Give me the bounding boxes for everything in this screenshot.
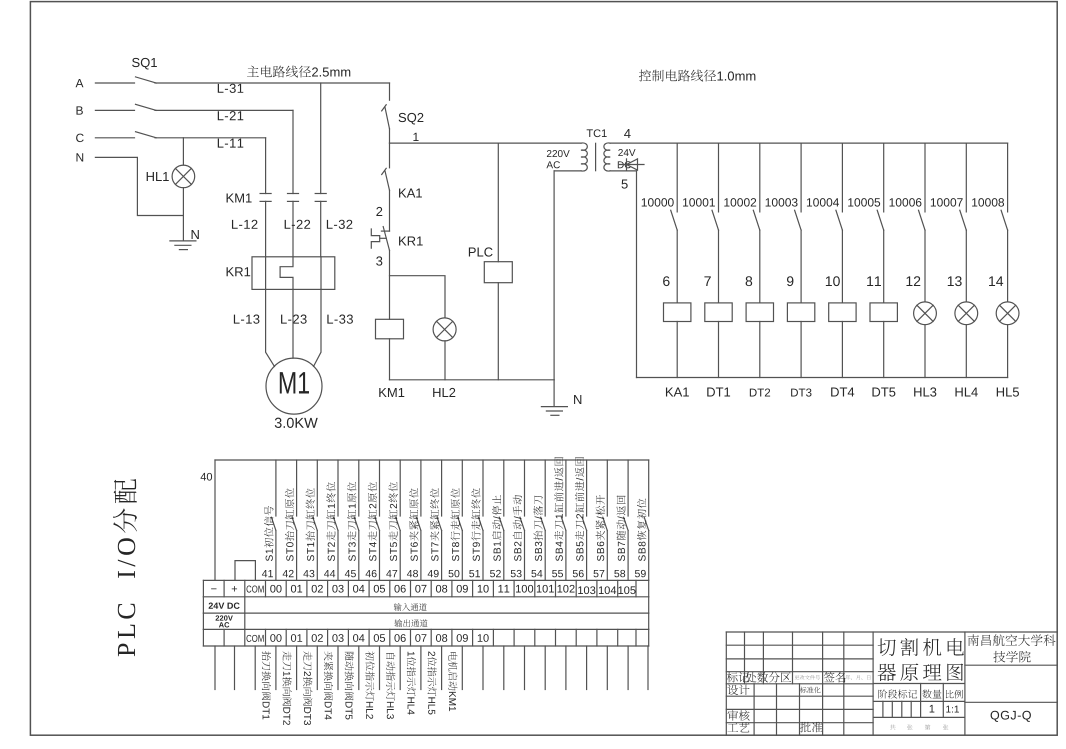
label output address 10003 xyxy=(766,198,798,206)
wire branch DT4 lower xyxy=(841,322,843,378)
label L-13 xyxy=(234,315,260,324)
coil DT3 xyxy=(787,303,814,322)
label output address 10001 xyxy=(683,198,715,206)
wire branch HL5 upper xyxy=(1007,230,1009,302)
contact input 46 xyxy=(375,517,380,530)
contactor KM1 main contact 1 xyxy=(260,193,271,195)
wire input 55 lower xyxy=(565,531,567,581)
wire input 45 upper xyxy=(358,460,360,516)
wire motor lead 1 xyxy=(266,289,275,366)
label PLC xyxy=(469,247,493,256)
wire branch DT1 upper xyxy=(718,230,720,303)
wire KR1 phase2 heater jog xyxy=(280,257,293,290)
label wire number 43 xyxy=(303,570,314,577)
wire drop C to KM1 xyxy=(265,138,267,194)
transformer TC1 core xyxy=(595,143,597,170)
label wire number 57 xyxy=(594,570,605,577)
wire input 58 lower xyxy=(627,531,629,581)
label output channel xyxy=(394,619,427,627)
contact input 52 xyxy=(499,517,504,530)
wire DC left rail xyxy=(636,171,638,378)
wire HL1 drop from C xyxy=(182,138,184,165)
label control circuit wire size xyxy=(639,70,755,82)
wire branch DT4 upper xyxy=(841,230,843,303)
node 1 label xyxy=(413,133,418,141)
label output address 10006 xyxy=(890,198,922,206)
label input ST2走刀缸1终位 xyxy=(326,482,335,561)
wire KR1 phase3 through xyxy=(320,257,322,290)
label KA1 contact xyxy=(399,189,422,198)
label KR1 contact xyxy=(399,237,423,246)
label HL3 xyxy=(914,387,936,396)
wire branch DT5 lower xyxy=(883,322,885,378)
wire input 57 lower xyxy=(606,531,608,581)
ground N mid xyxy=(541,406,567,408)
label wire 40 xyxy=(201,473,213,481)
wire SQ2 to node 1 xyxy=(389,129,391,143)
label wire number 49 xyxy=(428,570,439,577)
label output address 10005 xyxy=(848,198,880,206)
wire input 47 lower xyxy=(399,531,401,581)
contact input 42 xyxy=(292,517,297,530)
label wire number 41 xyxy=(262,570,273,577)
wire A down to SQ2 xyxy=(389,83,391,100)
wire control top rail xyxy=(390,142,582,144)
wire phase A in xyxy=(95,82,134,84)
label input ST4走刀缸2原位 xyxy=(368,482,377,561)
contact input 54 xyxy=(541,517,546,530)
label input ST6夹紧缸原位 xyxy=(409,488,418,561)
terminal table row4 dividers xyxy=(202,629,204,646)
wire output stubs xyxy=(214,646,216,690)
wire input 50 upper xyxy=(461,460,463,516)
drawing title xyxy=(878,638,964,656)
label 220V xyxy=(547,150,570,157)
wire input 41 lower xyxy=(275,531,277,581)
label KM1 main contacts xyxy=(227,194,252,203)
contact PLC output 10007 xyxy=(965,143,967,212)
label wire number 55 xyxy=(552,570,563,577)
label output address 10004 xyxy=(807,198,839,206)
label wire number 42 xyxy=(283,570,294,577)
label input SB6夹紧/松开 xyxy=(596,495,605,561)
label L-12 xyxy=(232,220,258,229)
lamp HL5 xyxy=(996,302,1019,325)
contact input 58 xyxy=(624,517,629,530)
coil KA1 xyxy=(664,303,691,322)
wire input 58 upper xyxy=(627,460,629,516)
label input ST8行走缸原位 xyxy=(451,488,460,561)
label input ST5走刀缸2终位 xyxy=(388,482,397,561)
terminal table row1 labels xyxy=(211,587,216,590)
contact KA1 xyxy=(385,171,390,191)
wire drop A to KM1 xyxy=(320,83,322,194)
label output address 10008 xyxy=(972,198,1004,206)
switch SQ1 blade C xyxy=(136,132,157,138)
label output address 10000 xyxy=(642,198,674,206)
diode D1 xyxy=(620,164,645,166)
terminal table row4 labels xyxy=(246,635,263,642)
wire input 54 upper xyxy=(544,460,546,516)
wire branch KA1 lower xyxy=(676,322,678,378)
terminal table row1 dividers xyxy=(202,580,204,596)
label input ST1抬刀缸终位 xyxy=(306,488,315,561)
contact input 53 xyxy=(520,517,525,530)
label wire number 47 xyxy=(386,570,397,577)
label input ST0抬刀缸原位 xyxy=(285,488,294,561)
contact PLC output 10008 xyxy=(1007,143,1009,212)
wire input 59 lower xyxy=(648,531,650,581)
label SQ1 xyxy=(132,58,157,70)
wire input 43 lower xyxy=(316,531,318,581)
label wire number 51 xyxy=(469,570,480,577)
contact PLC output 10006 xyxy=(924,143,926,212)
contact input 57 xyxy=(603,517,608,530)
label SQ2 xyxy=(399,113,424,125)
label input SB4走刀1缸前进/返回 xyxy=(554,457,563,561)
label input ST7夹紧缸终位 xyxy=(430,488,439,561)
wire input 53 lower xyxy=(524,531,526,581)
wire input 42 lower xyxy=(296,531,298,581)
label input ST9行走缸终位 xyxy=(471,488,480,561)
wire node3 branch to HL2 xyxy=(390,276,446,318)
wire 40 drop xyxy=(214,460,216,580)
wire input 55 upper xyxy=(565,460,567,516)
wire input 46 lower xyxy=(379,531,381,581)
wire jumper plus to COM xyxy=(235,561,255,581)
wire KA1 to KR1 xyxy=(389,190,391,231)
node B phase label xyxy=(76,106,82,114)
label TC1 xyxy=(587,129,607,137)
label wire number 50 xyxy=(449,570,460,577)
wire node1 to KA1 xyxy=(389,143,391,168)
contact PLC output 10003 xyxy=(800,143,802,212)
label DT3 xyxy=(791,388,811,396)
wire branch DT2 lower xyxy=(759,322,761,378)
label input SB1启动/停止 xyxy=(492,495,501,561)
node 9 label xyxy=(787,276,793,286)
wire primary bottom lead xyxy=(554,170,581,172)
wire secondary bottom lead xyxy=(610,170,636,172)
label L-22 xyxy=(285,220,311,229)
label 24V xyxy=(618,149,635,156)
label main circuit wire size xyxy=(247,66,350,78)
lamp HL2 xyxy=(433,318,456,341)
PLC box U1 xyxy=(484,262,512,283)
wire HL1 to ground xyxy=(182,188,184,241)
label wire number 58 xyxy=(614,570,625,577)
label input SB7随动/返回 xyxy=(616,495,625,561)
transformer TC1 secondary winding xyxy=(604,143,610,171)
switch SQ1 blade B xyxy=(136,104,157,110)
node 8 label xyxy=(746,276,753,286)
wire input 48 lower xyxy=(420,531,422,581)
contact KR1 NC thermal xyxy=(381,230,389,232)
wire branch DT5 upper xyxy=(883,230,885,303)
label L-31 xyxy=(218,84,244,93)
lamp HL4 xyxy=(955,302,978,325)
label N mid ground xyxy=(574,395,581,404)
wire control bottom rail xyxy=(390,379,555,381)
wire PLC to rail xyxy=(497,283,499,380)
wire branch HL4 lower xyxy=(965,325,967,378)
contact input 44 xyxy=(334,517,339,530)
thermal relay KR1 box xyxy=(252,257,335,290)
label KA1 xyxy=(666,388,689,397)
node 4 label xyxy=(624,129,631,138)
wire neutral N xyxy=(95,157,183,215)
wire DC bottom rail xyxy=(637,377,1008,379)
wire branch DT2 upper xyxy=(759,230,761,303)
wire phase C run xyxy=(155,137,266,139)
wire input 49 upper xyxy=(441,460,443,516)
label 24V DC xyxy=(209,603,240,609)
node 13 label xyxy=(948,276,962,286)
label DT4 xyxy=(831,388,854,397)
node 2 label xyxy=(376,207,382,216)
node N phase label xyxy=(76,153,83,161)
wire input 41 upper xyxy=(275,460,277,516)
node 14 label xyxy=(989,276,1003,286)
organization name xyxy=(968,634,1056,646)
contact input 55 xyxy=(561,517,566,530)
wire input 51 upper xyxy=(482,460,484,516)
transformer TC1 primary winding xyxy=(581,143,587,171)
wire motor lead 2 xyxy=(292,289,294,358)
contact input 50 xyxy=(458,517,463,530)
motor M1 xyxy=(266,358,322,414)
ground N left xyxy=(170,240,196,242)
label 3.0KW xyxy=(275,418,318,428)
sheet count row xyxy=(890,725,895,730)
contact input 47 xyxy=(396,517,401,530)
label L-21 xyxy=(218,111,244,120)
wire input 56 upper xyxy=(586,460,588,516)
wire I/O top bus xyxy=(215,459,649,461)
contact input 45 xyxy=(354,517,359,530)
node A phase label xyxy=(76,79,84,87)
contact PLC output 10000 xyxy=(676,143,678,212)
wire input 44 lower xyxy=(337,531,339,581)
label DT1 xyxy=(707,388,730,397)
wire input 54 lower xyxy=(544,531,546,581)
contact input 48 xyxy=(416,517,421,530)
node 5 label xyxy=(622,180,628,189)
wire input 42 upper xyxy=(296,460,298,516)
lamp HL3 xyxy=(914,302,937,325)
label wire number 59 xyxy=(635,570,646,577)
coil DT2 xyxy=(746,303,773,322)
wire KM1 coil to rail xyxy=(389,339,391,380)
label L-32 xyxy=(327,220,353,229)
node 10 label xyxy=(826,276,840,286)
label input SB2自动/手动 xyxy=(513,495,522,561)
label wire number 48 xyxy=(407,570,418,577)
wire input 45 lower xyxy=(358,531,360,581)
wire input 49 lower xyxy=(441,531,443,581)
wire DC top rail xyxy=(610,142,1007,144)
quantity and scale values xyxy=(930,705,935,713)
label input SB5走刀2缸前进/返回 xyxy=(575,457,584,561)
wire input 52 upper xyxy=(503,460,505,516)
title block row labels xyxy=(727,685,749,695)
title block stage row xyxy=(878,689,917,698)
label DT2 xyxy=(750,388,770,396)
coil DT1 xyxy=(705,303,732,322)
wire transformer primary return xyxy=(553,171,555,380)
contact input 59 xyxy=(644,517,649,530)
node 7 label xyxy=(704,276,710,286)
label 220V AC xyxy=(216,615,233,620)
terminal table horizontal lines xyxy=(203,579,648,581)
wire KR1 phase1 through xyxy=(265,257,267,290)
label PLC I/O allocation xyxy=(113,479,137,656)
contactor KM1 main contact 3 xyxy=(315,193,326,195)
label AC xyxy=(546,161,560,168)
node 11 label xyxy=(867,276,881,286)
wire branch HL3 upper xyxy=(924,230,926,302)
label wire number 56 xyxy=(573,570,584,577)
coil DT5 xyxy=(870,303,897,322)
label input S1初位信号 xyxy=(264,506,273,561)
label output address 10002 xyxy=(724,198,756,206)
coil KM1 xyxy=(376,319,404,339)
label input SB3抬刀/落刀 xyxy=(533,496,542,561)
wire branch HL5 lower xyxy=(1007,325,1009,378)
wire branch DT1 lower xyxy=(718,322,720,378)
wire phase C in xyxy=(95,137,134,139)
wire input 46 upper xyxy=(379,460,381,516)
wire phase A to SQ2 branch xyxy=(155,82,390,84)
label wire number 46 xyxy=(366,570,377,577)
wire HL2 to rail xyxy=(444,341,446,380)
label HL1 xyxy=(147,172,169,181)
contact PLC output 10001 xyxy=(718,143,720,212)
contact PLC output 10004 xyxy=(841,143,843,212)
label L-33 xyxy=(327,315,353,324)
title block grid xyxy=(725,632,727,735)
contact PLC output 10005 xyxy=(883,143,885,212)
drawing number QGJ-Q xyxy=(991,711,1031,722)
switch SQ2 xyxy=(385,107,390,129)
node 6 label xyxy=(663,276,669,286)
label DT5 xyxy=(872,388,895,397)
wire phase B run xyxy=(155,109,293,111)
terminal table row2 row3 dividers xyxy=(202,597,204,613)
label wire number 52 xyxy=(490,570,501,577)
wire rail to ground xyxy=(553,380,555,407)
label L-11 xyxy=(218,139,244,148)
wire input 44 upper xyxy=(337,460,339,516)
wire branch HL4 upper xyxy=(965,230,967,302)
wire drop B to KM1 xyxy=(292,110,294,193)
label KM1 coil xyxy=(379,388,404,397)
coil DT4 xyxy=(829,303,856,322)
contact input 51 xyxy=(479,517,484,530)
label wire number 44 xyxy=(324,570,335,577)
wire input 43 upper xyxy=(316,460,318,516)
node 12 label xyxy=(906,276,920,286)
label HL5 xyxy=(997,388,1019,397)
label DC xyxy=(618,161,631,168)
label output address 10007 xyxy=(931,198,963,206)
contact input 41 xyxy=(271,517,276,530)
contact input 49 xyxy=(437,517,442,530)
wire PLC drop xyxy=(497,143,499,262)
wire input 52 lower xyxy=(503,531,505,581)
wire phase B in xyxy=(95,109,134,111)
lamp HL1 xyxy=(172,165,195,188)
label input SB8恢复初位 xyxy=(637,498,646,561)
switch SQ1 blade A xyxy=(136,77,157,83)
label wire number 54 xyxy=(531,570,542,577)
label input ST3走刀缸1原位 xyxy=(347,482,356,561)
wire input 59 upper xyxy=(648,460,650,516)
label HL4 xyxy=(955,388,977,397)
label HL2 xyxy=(433,388,455,397)
label wire number 53 xyxy=(511,570,522,577)
contact input 56 xyxy=(582,517,587,530)
wire motor lead 3 xyxy=(314,289,322,366)
wire branch KA1 upper xyxy=(676,230,678,303)
wire input 50 lower xyxy=(461,531,463,581)
label L-23 xyxy=(281,315,307,324)
wire input 47 upper xyxy=(399,460,401,516)
wire branch DT3 upper xyxy=(800,230,802,303)
wire input 48 upper xyxy=(420,460,422,516)
label wire number 45 xyxy=(345,570,356,577)
label KR1 thermal relay xyxy=(227,267,251,276)
node 3 label xyxy=(376,256,382,265)
label input channel xyxy=(394,603,427,611)
wire KR1 to KM1 coil xyxy=(389,250,391,319)
contactor KM1 main contact 2 xyxy=(288,193,299,195)
wire input 51 lower xyxy=(482,531,484,581)
wire input 53 upper xyxy=(524,460,526,516)
node C phase label xyxy=(76,134,84,142)
labels output devices xyxy=(262,651,271,719)
title block small headers xyxy=(727,672,749,682)
wire input 57 upper xyxy=(606,460,608,516)
contact PLC output 10002 xyxy=(759,143,761,212)
wire branch HL3 lower xyxy=(924,325,926,378)
contact input 43 xyxy=(313,517,318,530)
wire branch DT3 lower xyxy=(800,322,802,378)
wire input 56 lower xyxy=(586,531,588,581)
label N left ground xyxy=(192,230,199,239)
